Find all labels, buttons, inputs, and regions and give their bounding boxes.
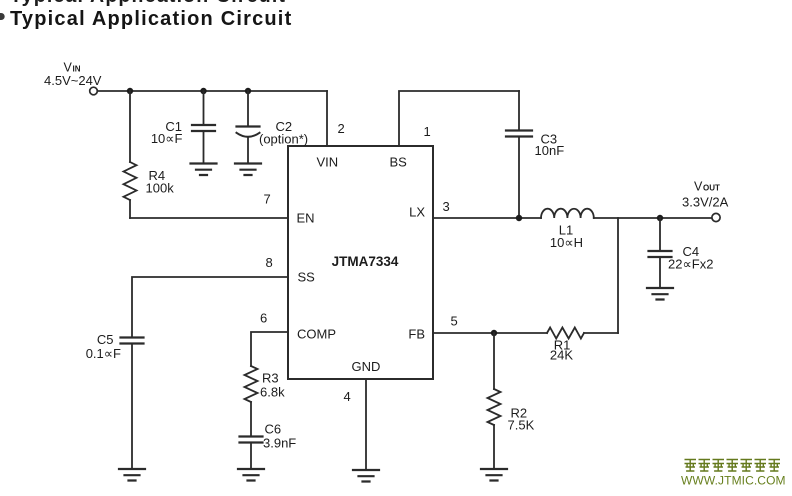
- terminal VIN input: [90, 87, 98, 95]
- svg-text:JTMA7334: JTMA7334: [332, 254, 399, 269]
- resistor R4: [124, 91, 137, 218]
- resistor R3: [245, 366, 258, 437]
- label R4 value: [146, 168, 175, 196]
- label R2 value: [508, 406, 535, 433]
- title: [10, 8, 292, 31]
- wire LX output: [433, 217, 541, 219]
- label C6 value: [263, 422, 296, 451]
- svg-text:SS: SS: [298, 270, 316, 285]
- svg-text:V: V: [694, 180, 703, 194]
- svg-text:FB: FB: [408, 327, 425, 342]
- wire input rail: [98, 90, 328, 92]
- svg-text:Typical Application Circuit: Typical Application Circuit: [10, 0, 286, 7]
- svg-text:6: 6: [260, 311, 267, 326]
- terminal VOUT: [712, 213, 720, 221]
- capacitor C4: [649, 218, 672, 288]
- node FB/R2 junction: [491, 330, 497, 336]
- ground under C5: [119, 469, 145, 481]
- watermark chinese characters (faked strokes): [685, 460, 781, 472]
- wire EN to R4: [130, 217, 288, 219]
- svg-text:OUT: OUT: [703, 184, 720, 193]
- svg-text:VIN: VIN: [317, 155, 339, 170]
- ground under C4: [647, 288, 673, 300]
- svg-text:24K: 24K: [550, 348, 573, 363]
- capacitor C3: [506, 91, 532, 218]
- svg-text:WWW.JTMIC.COM: WWW.JTMIC.COM: [681, 474, 786, 488]
- capacitor C2: [237, 91, 260, 164]
- resistor R2: [488, 333, 501, 469]
- label VOUT terminal: [682, 180, 729, 210]
- svg-text:COMP: COMP: [297, 327, 336, 342]
- svg-text:8: 8: [266, 255, 273, 270]
- resistor R1: [547, 328, 584, 339]
- ground under R2: [481, 469, 507, 481]
- label R1 value: [550, 338, 573, 363]
- svg-text:5: 5: [451, 314, 458, 329]
- wire output rail: [594, 217, 712, 219]
- wire R1 to feedback drop: [584, 332, 618, 334]
- svg-text:7: 7: [264, 192, 271, 207]
- label L1 value: [550, 223, 583, 251]
- capacitor C6: [240, 437, 263, 470]
- ground under C2: [235, 164, 261, 176]
- capacitor C1: [192, 91, 215, 164]
- node output/C4 junction: [657, 215, 663, 221]
- cropped text artifact top edge: [10, 0, 286, 7]
- svg-text:4.5V~24V: 4.5V~24V: [44, 73, 102, 88]
- svg-text:R3: R3: [262, 371, 279, 386]
- label VIN terminal: [44, 61, 102, 89]
- label C1 value: [151, 119, 183, 146]
- svg-text:7.5K: 7.5K: [508, 418, 535, 433]
- svg-text:3: 3: [443, 199, 450, 214]
- inductor L1: [541, 209, 594, 218]
- label C5 value: [86, 332, 121, 361]
- wire GND pin stub: [365, 379, 367, 470]
- label C3 value: [535, 132, 565, 159]
- svg-text:0.1∝F: 0.1∝F: [86, 346, 121, 361]
- ground under GND pin: [353, 470, 379, 482]
- wire feedback drop: [617, 218, 619, 333]
- svg-text:(option*): (option*): [259, 132, 308, 147]
- label C4 value: [668, 244, 713, 272]
- svg-text:3.3V/2A: 3.3V/2A: [682, 195, 729, 210]
- svg-text:10∝H: 10∝H: [550, 235, 583, 250]
- wire SS net: [132, 277, 288, 338]
- svg-text:100k: 100k: [146, 181, 175, 196]
- svg-text:EN: EN: [297, 211, 315, 226]
- ground under C6: [238, 469, 264, 481]
- svg-text:GND: GND: [352, 359, 381, 374]
- IC U1 JTMA7334: [288, 146, 433, 379]
- svg-text:1: 1: [424, 124, 431, 139]
- svg-text:6.8k: 6.8k: [260, 385, 285, 400]
- svg-text:2: 2: [338, 121, 345, 136]
- svg-text:BS: BS: [390, 155, 408, 170]
- svg-text:C6: C6: [265, 422, 282, 437]
- ground under C1: [191, 164, 217, 176]
- svg-text:10∝F: 10∝F: [151, 131, 183, 146]
- svg-text:10nF: 10nF: [535, 143, 565, 158]
- svg-text:22∝Fx2: 22∝Fx2: [668, 257, 713, 272]
- svg-text:4: 4: [344, 389, 351, 404]
- wire FB net: [433, 332, 547, 334]
- svg-text:LX: LX: [409, 205, 425, 220]
- node LX/C3 junction: [516, 215, 522, 221]
- node input/R4 junction: [127, 88, 133, 94]
- svg-text:3.9nF: 3.9nF: [263, 436, 296, 451]
- svg-text:C5: C5: [97, 332, 114, 347]
- wire COMP net: [251, 332, 288, 366]
- wire BS loop pin1: [399, 91, 519, 146]
- capacitor C5: [121, 338, 144, 470]
- label C2 value: [259, 119, 308, 147]
- node input/C2 junction: [245, 88, 251, 94]
- node input/C1 junction: [200, 88, 206, 94]
- label R3 value: [260, 371, 285, 400]
- wire pin2 stub: [326, 91, 328, 146]
